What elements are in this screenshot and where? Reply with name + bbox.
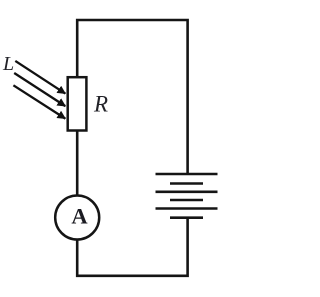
wire: bottom rail, ammeter bottom to battery bottom [77, 218, 187, 276]
wire: top rail, left vertical to resistor, right vertical to battery top [77, 20, 187, 174]
light arrow 1 [15, 61, 65, 94]
battery plate short 1 [170, 182, 203, 185]
light arrow 3 [13, 85, 65, 118]
battery B1 [156, 174, 218, 218]
battery plate short 2 [170, 199, 203, 202]
svg-text:A: A [71, 203, 88, 228]
wire: left vertical, resistor bottom to ammeter top [76, 130, 79, 197]
svg-text:R: R [93, 92, 108, 117]
light arrow 2 [14, 73, 65, 106]
battery plate short 3 [170, 216, 203, 219]
svg-text:L: L [2, 53, 14, 75]
battery plate long 3 [156, 207, 218, 210]
resistor R (LDR body) [68, 77, 87, 130]
battery plate long 1 [156, 173, 218, 176]
ammeter A: circle body [55, 196, 99, 240]
battery plate long 2 [156, 191, 218, 194]
